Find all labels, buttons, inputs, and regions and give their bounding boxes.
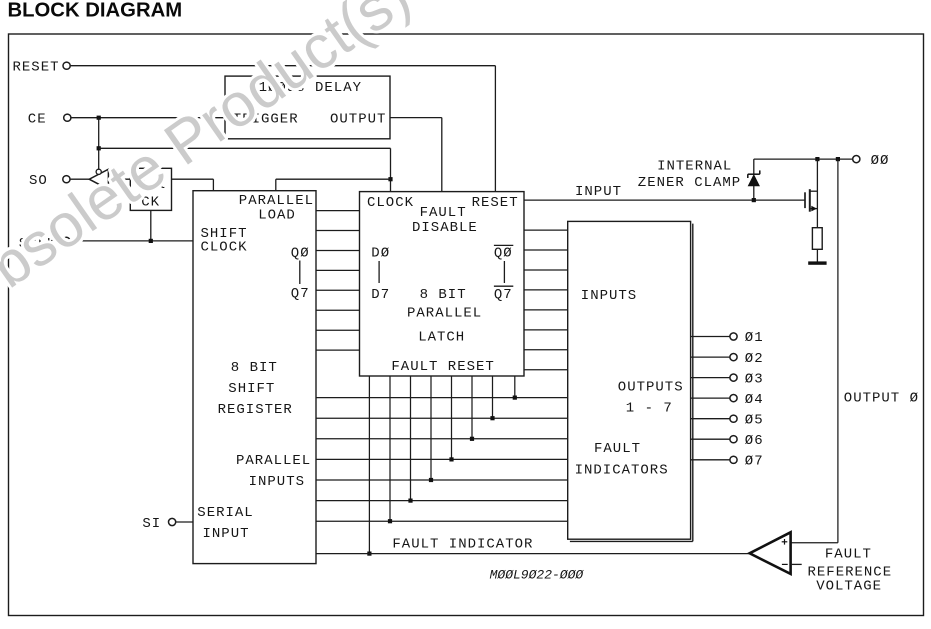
wire output O5 [691,418,730,420]
svg-text:LATCH: LATCH [418,330,465,346]
wire parallel input 1 bus [316,397,568,399]
wire parallel input 2 bus [316,417,568,419]
junction fault reset 2 [408,499,412,503]
wire latch output 5 to fault indicators block [524,329,568,331]
pin CE [64,114,71,121]
wire INPUT latch to gate [524,199,805,201]
svg-text:SHIFT: SHIFT [228,381,275,397]
wire drain-source vertical [816,159,818,228]
wire fault reset vertical 0 [368,376,370,554]
junction fault reset 5 [470,437,474,441]
wire CE branch horizontal [99,147,391,149]
buffer enable bubble [96,169,101,174]
svg-text:PARALLEL: PARALLEL [407,306,482,322]
wire latch output 1 to fault indicators block [524,249,568,251]
wire parallel input 3 bus [316,438,568,440]
comparator plus sign [782,539,788,545]
junction parallel load / clock [388,177,392,181]
svg-text:Ø1: Ø1 [745,330,764,346]
wire zener cathode [753,159,755,175]
wire zener anode [753,186,755,200]
delay block U3 (100us delay) [225,76,390,139]
svg-text:DISABLE: DISABLE [412,220,478,236]
svg-text:FAULT: FAULT [825,547,872,563]
shift register U4 (8 bit shift register) [193,191,316,564]
svg-text:REGISTER: REGISTER [218,402,293,418]
wire output O4 [691,397,730,399]
svg-text:QØ: QØ [494,246,513,262]
bar Q0..Q7 range (shift register) [299,261,301,285]
svg-text:RESET: RESET [13,60,60,76]
wire fault reset vertical 2 [410,376,412,501]
junction feedback / rail [836,157,840,161]
overline Q7 [494,285,513,287]
svg-text:OUTPUT Ø: OUTPUT Ø [844,390,919,406]
svg-text:INPUTS: INPUTS [581,288,637,304]
watermark Obsolete Product(s) [0,0,422,328]
pin O4 [730,395,737,402]
wire OUTPUT 0 feedback vertical [837,159,839,543]
flip-flop U2 (D latch) [130,168,171,210]
wire feedback to comparator plus input [791,542,838,544]
wire data bus Q7 shift register to latch D7 [316,349,360,351]
svg-text:INPUT: INPUT [575,184,622,200]
junction fault reset 6 [490,416,494,420]
wire delay OUTPUT down to latch [441,118,443,192]
svg-text:Ø4: Ø4 [745,392,764,408]
comparator U7 (fault sense) [750,532,791,574]
wire to parallel load [276,178,391,180]
svg-text:FAULT: FAULT [594,441,641,457]
svg-text:8 BIT: 8 BIT [420,287,467,303]
overline Q0 [494,244,513,246]
wire RESET horizontal [71,65,496,67]
block shadow bottom [570,540,693,542]
svg-text:FAULT RESET: FAULT RESET [391,359,494,375]
junction zener / input line [752,198,756,202]
wire buffer output to SO pin [70,178,89,180]
svg-text:INDICATORS: INDICATORS [575,462,669,478]
wire fault reset vertical 7 [514,376,516,398]
wire output O2 [691,356,730,358]
wire RESET vertical to latch RESET input [494,66,496,192]
svg-text:CE: CE [28,112,47,128]
wire down to latch CLOCK input [390,148,392,191]
svg-text:Q7: Q7 [291,286,310,302]
svg-text:8 BIT: 8 BIT [231,360,278,376]
svg-text:Ø3: Ø3 [745,371,764,387]
junction fault reset 1 [388,519,392,523]
svg-text:SI: SI [142,516,161,532]
wire CK to SCLK line [150,210,152,241]
resistor R1 (source sense) [812,228,822,250]
pin O2 [730,354,737,361]
pin O1 [730,333,737,340]
wire parallel input 4 bus [316,458,568,460]
wire delay OUTPUT horizontal [390,117,442,119]
wire latch output 3 to fault indicators block [524,289,568,291]
svg-text:MØØL9Ø22-ØØØ: MØØL9Ø22-ØØØ [490,568,585,583]
zener diode D1 (internal zener clamp) [748,170,760,186]
svg-text:SO: SO [29,173,48,189]
svg-text:ØØ: ØØ [871,153,890,169]
wire into shift register top [212,179,214,191]
wire latch output 4 to fault indicators block [524,309,568,311]
junction CE branch 2 [97,146,101,150]
svg-text:QØ: QØ [291,246,310,262]
wire data bus Q2 shift register to latch D2 [316,250,360,252]
wire SCLK to SHIFT CLOCK input [70,240,193,242]
svg-text:OUTPUTS: OUTPUTS [618,379,684,395]
svg-text:PARALLEL: PARALLEL [236,453,311,469]
pin O5 [730,415,737,422]
svg-text:INPUT: INPUT [203,526,250,542]
wire data bus Q4 shift register to latch D4 [316,289,360,291]
wire fault reset vertical 3 [430,376,432,480]
junction CE branch [97,116,101,120]
pin O0 [853,156,860,163]
wire minus input stub (fault reference voltage) [791,563,802,565]
wire output O3 [691,377,730,379]
fault indicators block U6 [568,221,691,539]
wire output O6 [691,438,730,440]
wire resistor to ground [816,249,818,261]
junction fault reset 3 [429,478,433,482]
wire output O1 [691,336,730,338]
wire CE to delay TRIGGER [71,117,225,119]
wire latch output 2 to fault indicators block [524,269,568,271]
svg-text:CLOCK: CLOCK [367,195,414,211]
wire output rail to O0 [754,158,853,160]
latch U5 (8 bit parallel latch) [360,192,525,376]
junction fault reset 0 [367,552,371,556]
wire CE down to buffer enable [98,118,100,169]
wire fault reset vertical 1 [389,376,391,521]
wire fault reset vertical 6 [492,376,494,418]
svg-text:LOAD: LOAD [258,208,296,224]
junction SCLK / CK [149,239,153,243]
wire data bus Q1 shift register to latch D1 [316,230,360,232]
svg-text:SERIAL: SERIAL [197,505,253,521]
wire parallel input 7 bus [316,520,568,522]
wire into shift register PARALLEL LOAD [275,179,277,191]
wire data bus Q6 shift register to latch D6 [316,329,360,331]
wire data bus Q5 shift register to latch D5 [316,309,360,311]
wire flip-flop Q to buffer input [108,178,130,180]
wire latch output 6 to fault indicators block [524,349,568,351]
svg-text:D7: D7 [371,287,390,303]
wire SI to SERIAL INPUT [176,521,193,523]
wire fault reset vertical 5 [471,376,473,439]
wire latch output 0 to fault indicators block [524,229,568,231]
wire latch output 7 to fault indicators block [524,369,568,371]
wire parallel input 5 bus [316,479,568,481]
wire shift register serial out to flip-flop [172,178,214,180]
wire data bus Q3 shift register to latch D3 [316,269,360,271]
svg-text:OUTPUT: OUTPUT [330,111,386,127]
comparator minus sign [782,563,788,565]
svg-text:Ø7: Ø7 [745,454,764,470]
pin SCLK [63,237,70,244]
wire FAULT INDICATOR [316,553,750,555]
wire parallel input 6 bus [316,500,568,502]
wire fault reset vertical 4 [451,376,453,459]
bar Q0..Q7 range (latch) [503,261,505,283]
svg-text:VOLTAGE: VOLTAGE [816,579,882,595]
pin O7 [730,456,737,463]
svg-text:ZENER CLAMP: ZENER CLAMP [638,175,741,191]
transistor Q1 (power DMOS output) [805,189,817,212]
bar D0..D7 range [378,261,380,283]
ground [808,261,826,264]
svg-text:Ø2: Ø2 [745,351,764,367]
svg-text:Ø5: Ø5 [745,412,764,428]
wire output O7 [691,459,730,461]
junction fault reset 7 [513,396,517,400]
svg-text:1 - 7: 1 - 7 [626,401,673,417]
svg-text:DØ: DØ [371,246,390,262]
wire data bus Q0 shift register to latch D0 [316,210,360,212]
pin O3 [730,374,737,381]
svg-text:BLOCK DIAGRAM: BLOCK DIAGRAM [8,0,183,22]
tri-state buffer U1 [89,169,108,189]
pin O6 [730,436,737,443]
pin RESET [63,62,70,69]
junction drain / rail [815,157,819,161]
pin SI [169,518,176,525]
svg-text:FAULT INDICATOR: FAULT INDICATOR [392,537,533,553]
svg-text:FAULT: FAULT [420,205,467,221]
svg-text:Q7: Q7 [494,287,513,303]
junction fault reset 4 [449,457,453,461]
pin SO [63,176,70,183]
svg-text:INPUTS: INPUTS [249,474,305,490]
svg-text:Ø6: Ø6 [745,433,764,449]
svg-text:RESET: RESET [472,195,519,211]
block shadow right [692,224,694,542]
svg-text:INTERNAL: INTERNAL [657,158,732,174]
svg-text:CLOCK: CLOCK [201,240,248,256]
